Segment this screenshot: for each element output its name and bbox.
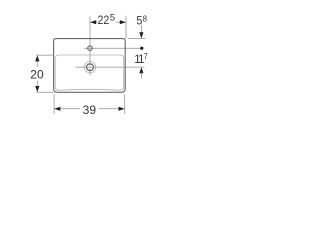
dim 39 line <box>59 108 80 110</box>
dim 39 extension line right <box>124 95 126 115</box>
dim 39 arrow left <box>54 107 60 111</box>
basin inner outline <box>55 55 124 90</box>
svg-text:20: 20 <box>30 67 44 81</box>
dim 20 extension line top <box>36 54 54 56</box>
basin outer outline <box>54 39 126 93</box>
drain center tick cross <box>86 63 94 71</box>
dim 11.7 reference dot <box>140 47 143 50</box>
centerline horizontal through drain <box>76 66 145 68</box>
dim 39 arrow right <box>119 107 125 111</box>
dim 5.8 extension line from top edge <box>128 38 146 40</box>
dim 22.5 arrow right <box>120 20 126 24</box>
dim 39 extension line left <box>53 95 55 115</box>
dim 11.7 tail line <box>140 73 142 79</box>
svg-text:39: 39 <box>83 103 97 117</box>
dim 20 line <box>36 59 38 67</box>
drain inner ring <box>87 64 94 71</box>
dim 22.5 extension line right <box>125 16 127 39</box>
svg-text:5: 5 <box>110 12 115 22</box>
centerline horizontal through tap hole to dot <box>84 47 141 49</box>
dim 11.7 arrow up <box>139 67 143 73</box>
dim 5.8 line <box>140 25 142 34</box>
drain outer circle <box>84 61 95 72</box>
dim 20 extension line bottom <box>37 91 54 93</box>
centerline vertical through tap hole and drain <box>89 17 91 76</box>
dim 20 arrow down <box>35 86 39 92</box>
dim 22.5 line <box>94 21 97 23</box>
dim 20 arrow up <box>35 55 39 61</box>
svg-text:22: 22 <box>98 13 110 27</box>
tap hole <box>88 46 93 51</box>
svg-text:7: 7 <box>144 51 148 61</box>
drain inner circle <box>87 64 94 71</box>
svg-text:8: 8 <box>143 14 148 24</box>
dim 5.8 arrow down <box>139 32 143 38</box>
dim 22.5 arrow left <box>90 20 96 24</box>
